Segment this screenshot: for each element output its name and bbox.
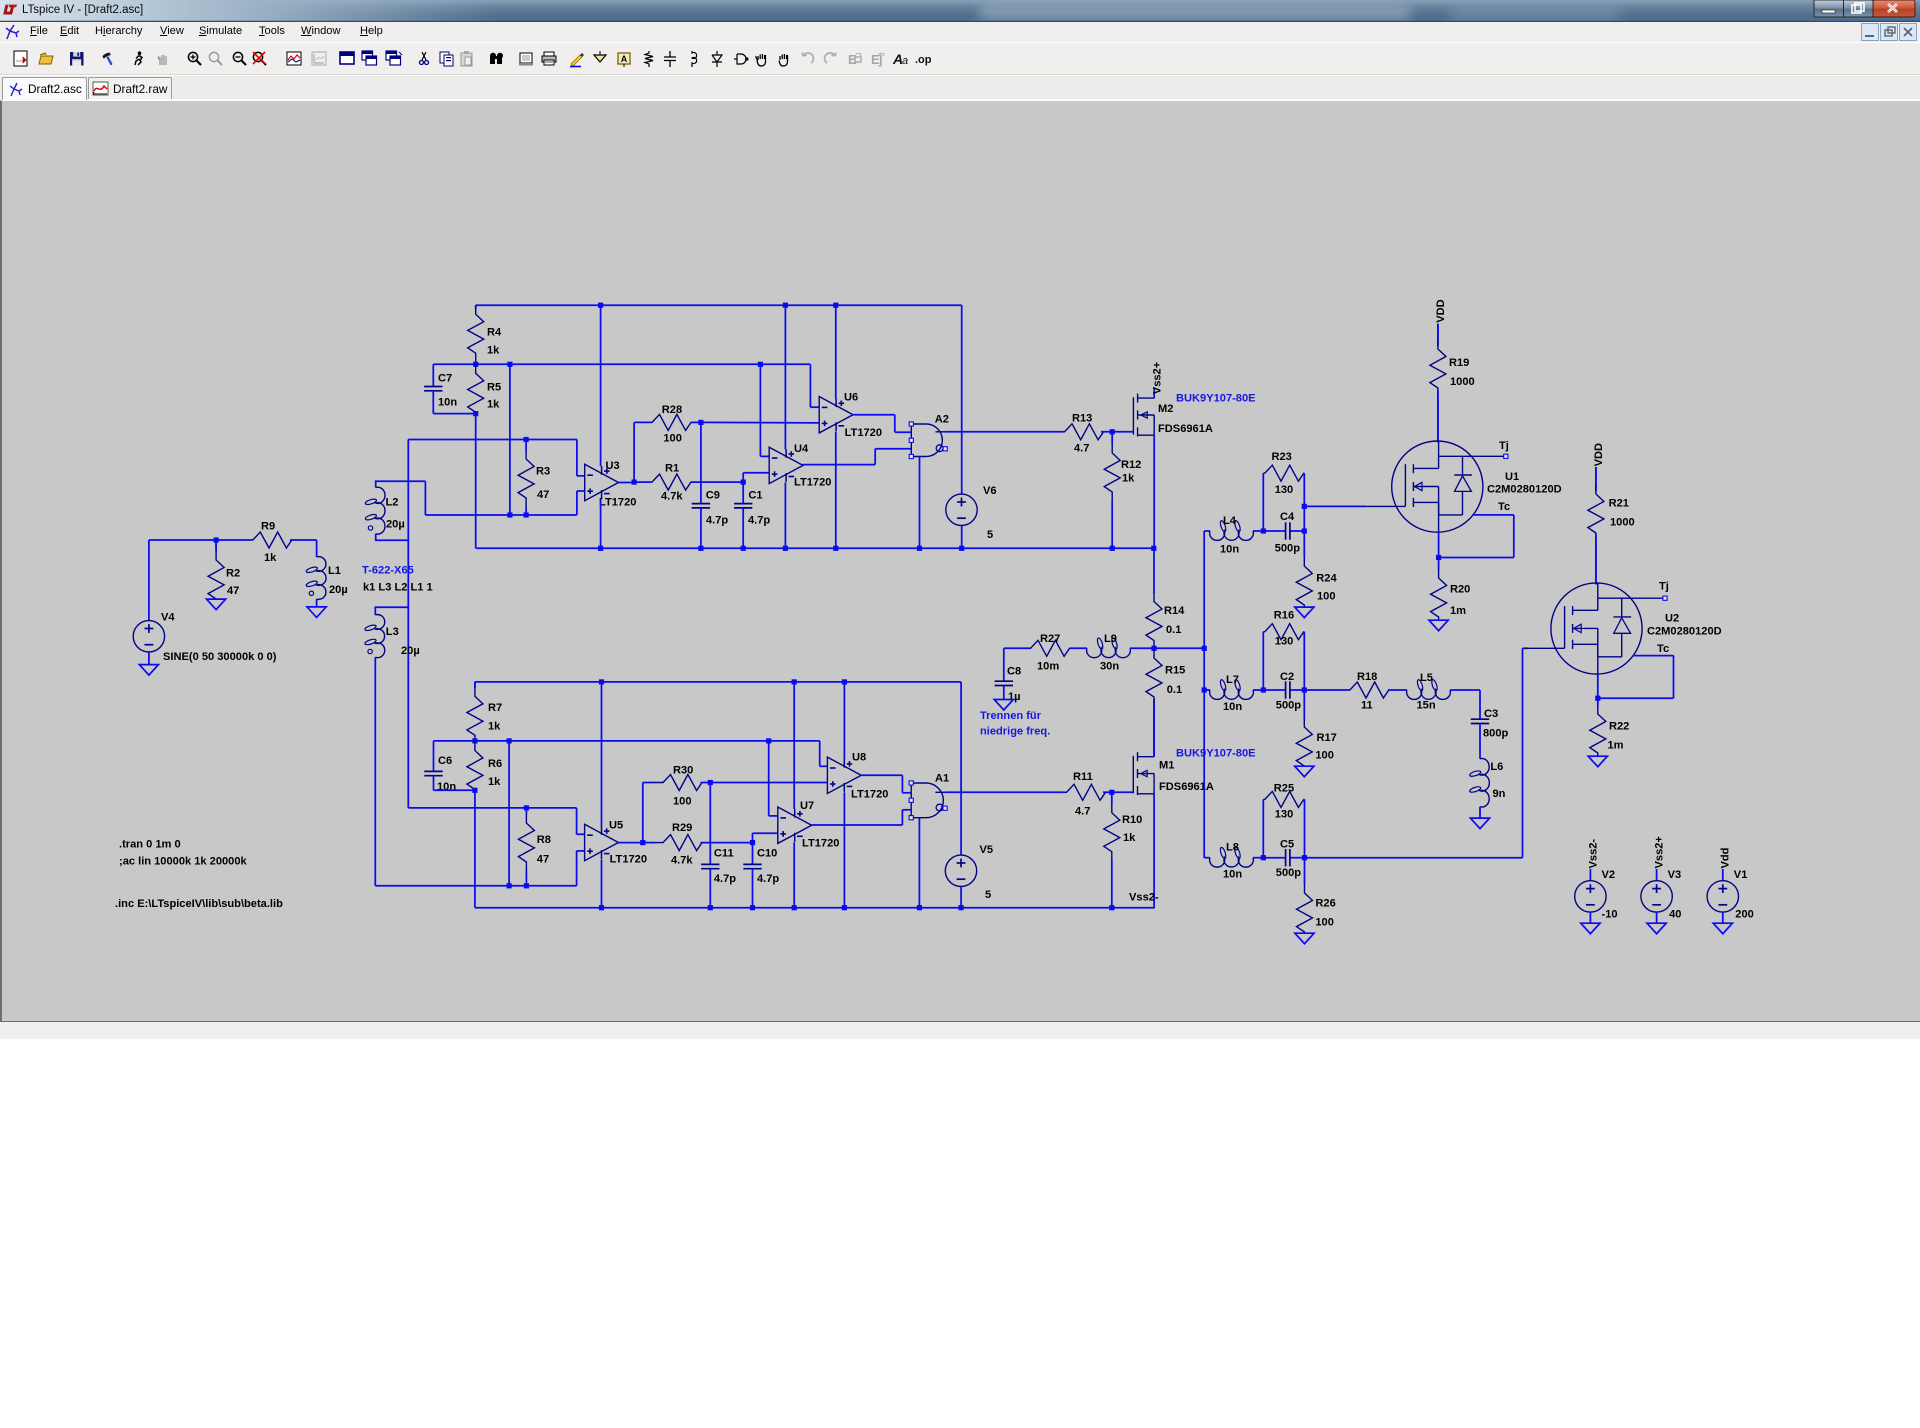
svg-text:130: 130 bbox=[1275, 809, 1294, 821]
svg-text:R22: R22 bbox=[1609, 721, 1629, 733]
svg-text:LT1720: LT1720 bbox=[794, 477, 831, 489]
junction bbox=[473, 411, 478, 416]
wire bbox=[643, 782, 652, 784]
svg-text:Tc: Tc bbox=[1498, 501, 1510, 513]
junction bbox=[473, 362, 478, 367]
svg-text:R28: R28 bbox=[662, 404, 682, 416]
ground R17 bbox=[1295, 766, 1314, 777]
wire bbox=[475, 362, 477, 364]
wire bbox=[752, 869, 754, 908]
svg-text:R1: R1 bbox=[665, 463, 679, 475]
wire bbox=[802, 464, 875, 466]
svg-text:U5: U5 bbox=[609, 820, 623, 832]
svg-text:V6: V6 bbox=[983, 485, 997, 497]
wire bbox=[1438, 533, 1440, 558]
wire bbox=[759, 364, 761, 456]
svg-text:1µ: 1µ bbox=[1008, 691, 1021, 703]
svg-text:BUK9Y107-80E: BUK9Y107-80E bbox=[1176, 747, 1256, 759]
junction bbox=[472, 738, 477, 743]
wire bbox=[474, 682, 476, 688]
wire bbox=[1479, 807, 1481, 818]
toolbar icon new schematic bbox=[14, 51, 27, 66]
wire bbox=[1474, 514, 1514, 516]
junction bbox=[598, 303, 603, 308]
junction bbox=[1151, 546, 1156, 551]
resistor R26 (100) bbox=[1297, 858, 1336, 934]
junction bbox=[632, 480, 637, 485]
wire bbox=[1070, 647, 1087, 649]
svg-text:M1: M1 bbox=[1159, 760, 1174, 772]
ground V4 bbox=[139, 665, 158, 676]
spice directive .tran bbox=[119, 839, 181, 851]
wire bbox=[290, 539, 317, 541]
junction bbox=[1261, 855, 1266, 860]
inductor L9 (30n) bbox=[1087, 633, 1131, 673]
comparator U3 LT1720 bbox=[585, 460, 637, 509]
toolbar icon label net bbox=[618, 53, 630, 67]
svg-text:R3: R3 bbox=[536, 465, 550, 477]
svg-text:1000: 1000 bbox=[1610, 517, 1635, 529]
toolbar icon copy bbox=[440, 52, 453, 66]
wire bbox=[1303, 632, 1305, 690]
wire bbox=[835, 432, 837, 549]
junction bbox=[524, 805, 529, 810]
wire bbox=[148, 652, 150, 665]
junction bbox=[507, 512, 512, 517]
svg-text:5: 5 bbox=[987, 529, 993, 541]
svg-text:R19: R19 bbox=[1449, 357, 1469, 369]
wire bbox=[701, 842, 753, 844]
toolbar icon find bbox=[490, 53, 503, 64]
wire bbox=[600, 500, 602, 549]
svg-text:30n: 30n bbox=[1100, 661, 1119, 673]
wire bbox=[475, 412, 477, 414]
junction bbox=[1202, 646, 1207, 651]
svg-text:15n: 15n bbox=[1417, 699, 1436, 711]
svg-text:Vss2+: Vss2+ bbox=[1653, 836, 1665, 869]
svg-text:VDD: VDD bbox=[1593, 443, 1605, 466]
svg-text:L9: L9 bbox=[1104, 633, 1117, 645]
canvas bottom border bbox=[0, 1021, 1920, 1022]
svg-text:500p: 500p bbox=[1276, 867, 1302, 879]
svg-text:U3: U3 bbox=[606, 460, 620, 472]
ground V2 bbox=[1581, 923, 1600, 934]
wire bbox=[743, 472, 769, 474]
toolbar icon open bbox=[39, 53, 53, 64]
junction bbox=[758, 362, 763, 367]
toolbar icon spice directive .op bbox=[915, 54, 932, 66]
toolbar icon print preview bbox=[519, 53, 533, 66]
wire bbox=[1004, 647, 1030, 649]
resistor R13 (4.7) bbox=[1063, 413, 1104, 455]
svg-text:V2: V2 bbox=[1602, 869, 1616, 881]
svg-text:VDD: VDD bbox=[1435, 299, 1447, 322]
junction bbox=[1109, 905, 1114, 910]
junction bbox=[1261, 687, 1266, 692]
svg-text:V1: V1 bbox=[1734, 869, 1748, 881]
wire bbox=[1263, 530, 1285, 532]
wire bbox=[475, 305, 477, 309]
wire bbox=[1597, 674, 1599, 698]
svg-text:Tc: Tc bbox=[1657, 643, 1669, 655]
wire bbox=[961, 526, 963, 549]
wire bbox=[1291, 530, 1305, 532]
svg-text:Vss2+: Vss2+ bbox=[1152, 361, 1164, 394]
wire bbox=[576, 440, 578, 476]
wire net R7-R6 mid bbox=[434, 740, 820, 742]
svg-text:130: 130 bbox=[1275, 484, 1294, 496]
wire bbox=[407, 440, 409, 808]
comparator U5 LT1720 bbox=[585, 820, 647, 866]
wire bbox=[215, 540, 217, 550]
svg-text:L5: L5 bbox=[1420, 672, 1433, 684]
AND gate A1 bbox=[909, 773, 949, 820]
wire bbox=[149, 539, 216, 541]
wire bbox=[1204, 857, 1210, 859]
svg-text:;ac lin 10000k 1k 20000k: ;ac lin 10000k 1k 20000k bbox=[119, 855, 248, 867]
svg-text:M2: M2 bbox=[1158, 403, 1173, 415]
toolbar icon inductor bbox=[692, 51, 697, 67]
svg-text:U4: U4 bbox=[794, 443, 809, 455]
toolbar icon print bbox=[542, 52, 556, 65]
svg-text:47: 47 bbox=[537, 489, 549, 501]
toolbar icon paste (disabled) bbox=[461, 51, 472, 66]
svg-text:R9: R9 bbox=[261, 521, 275, 533]
toolbar icon tile horizontal bbox=[340, 52, 354, 64]
svg-text:.tran 0 1m 0: .tran 0 1m 0 bbox=[119, 839, 181, 851]
svg-text:L7: L7 bbox=[1226, 674, 1239, 686]
ground R26 bbox=[1295, 933, 1314, 944]
wire bbox=[809, 364, 811, 407]
wire bbox=[742, 473, 744, 482]
svg-text:R29: R29 bbox=[672, 822, 692, 834]
wire bbox=[692, 421, 701, 423]
wire bbox=[861, 774, 902, 776]
junction bbox=[792, 679, 797, 684]
svg-text:4.7p: 4.7p bbox=[706, 515, 728, 527]
svg-text:R25: R25 bbox=[1274, 783, 1294, 795]
voltage source V2 (-10) Vss2- bbox=[1587, 839, 1599, 869]
wire bbox=[1253, 689, 1263, 691]
svg-text:4.7p: 4.7p bbox=[757, 873, 779, 885]
net label Vss2- bbox=[1129, 892, 1159, 904]
svg-text:R21: R21 bbox=[1609, 498, 1629, 510]
junction bbox=[792, 905, 797, 910]
inductor L2 (20µ) bbox=[365, 481, 426, 540]
wire bbox=[742, 508, 744, 548]
ground R22 bbox=[1588, 756, 1607, 767]
wire bbox=[474, 739, 476, 741]
tab bar bbox=[0, 76, 1920, 100]
wire net R4-R5 mid bbox=[433, 363, 810, 365]
wire bbox=[1204, 689, 1210, 691]
comparator U8 LT1720 bbox=[827, 752, 888, 801]
svg-text:C11: C11 bbox=[714, 848, 734, 860]
junction bbox=[783, 303, 788, 308]
wire bbox=[692, 481, 744, 483]
svg-text:4.7p: 4.7p bbox=[748, 515, 770, 527]
wire bbox=[784, 305, 786, 449]
svg-text:500p: 500p bbox=[1276, 699, 1302, 711]
wire bbox=[1153, 388, 1155, 398]
wire bbox=[1153, 794, 1155, 908]
resistor R22 (1m) bbox=[1590, 698, 1630, 756]
wire bbox=[509, 364, 511, 515]
junction bbox=[1109, 790, 1114, 795]
wire bbox=[633, 422, 635, 482]
svg-text:k1 L3 L2 L1 1: k1 L3 L2 L1 1 bbox=[363, 581, 433, 593]
junction bbox=[599, 679, 604, 684]
wire bbox=[433, 413, 475, 415]
wire bbox=[700, 422, 702, 503]
toolbar icon component bbox=[734, 54, 748, 64]
svg-text:R16: R16 bbox=[1274, 610, 1294, 622]
wire bbox=[576, 808, 578, 834]
wire bbox=[1154, 647, 1204, 649]
wire bbox=[1262, 799, 1264, 857]
wire bbox=[1291, 689, 1305, 691]
svg-text:niedrige freq.: niedrige freq. bbox=[980, 726, 1050, 738]
svg-text:C10: C10 bbox=[757, 848, 777, 860]
junction bbox=[524, 883, 529, 888]
wire bbox=[894, 415, 896, 433]
junction bbox=[507, 883, 512, 888]
toolbar icon save bbox=[70, 52, 84, 66]
svg-text:R30: R30 bbox=[673, 765, 693, 777]
svg-text:C2M0280120D: C2M0280120D bbox=[1487, 484, 1562, 496]
wire bbox=[843, 682, 845, 759]
wire bbox=[1388, 689, 1407, 691]
svg-text:-10: -10 bbox=[1602, 909, 1618, 921]
wire bbox=[918, 818, 920, 908]
status bar bbox=[0, 1022, 1920, 1039]
svg-text:1m: 1m bbox=[1608, 740, 1624, 752]
ground V3 bbox=[1647, 923, 1666, 934]
wire bbox=[793, 682, 795, 809]
junction bbox=[640, 840, 645, 845]
wire bbox=[576, 491, 578, 515]
svg-text:U6: U6 bbox=[844, 392, 858, 404]
toolbar bbox=[0, 43, 1920, 75]
wire bbox=[618, 842, 643, 844]
svg-text:100: 100 bbox=[1315, 750, 1334, 762]
wire bbox=[1130, 647, 1154, 649]
toolbar icon halt (disabled) bbox=[158, 55, 166, 65]
resistor R3 (47) bbox=[518, 440, 550, 516]
svg-text:C7: C7 bbox=[438, 372, 452, 384]
wire top rail bottom block bbox=[475, 681, 961, 683]
wire bbox=[1589, 912, 1591, 923]
wire bbox=[508, 741, 510, 886]
wire bbox=[945, 431, 1063, 433]
svg-text:C3: C3 bbox=[1484, 708, 1498, 720]
wire bbox=[1513, 515, 1515, 558]
svg-text:R17: R17 bbox=[1317, 732, 1337, 744]
caption buttons bbox=[1814, 0, 1915, 17]
wire bbox=[601, 860, 603, 908]
resistor R21 (1000) bbox=[1588, 467, 1635, 584]
toolbar icon control panel hammer bbox=[102, 52, 115, 67]
svg-text:R14: R14 bbox=[1164, 605, 1185, 617]
svg-text:R12: R12 bbox=[1121, 459, 1141, 471]
comparator U4 LT1720 bbox=[769, 443, 831, 489]
svg-text:4.7k: 4.7k bbox=[661, 491, 683, 503]
wire bbox=[434, 789, 475, 791]
svg-text:C5: C5 bbox=[1280, 839, 1294, 851]
wire bbox=[1262, 473, 1264, 531]
wire bbox=[1263, 689, 1285, 691]
svg-text:U7: U7 bbox=[800, 800, 814, 812]
wire bbox=[945, 791, 1065, 793]
svg-text:L4: L4 bbox=[1223, 515, 1237, 527]
svg-text:R2: R2 bbox=[226, 568, 240, 580]
resistor R20 (1m) bbox=[1431, 558, 1471, 621]
wire bbox=[709, 869, 711, 908]
svg-text:20µ: 20µ bbox=[329, 584, 348, 596]
svg-text:10n: 10n bbox=[1223, 869, 1242, 881]
svg-text:LT1720: LT1720 bbox=[851, 789, 888, 801]
svg-text:4.7: 4.7 bbox=[1075, 806, 1090, 818]
toolbar icon resistor bbox=[645, 51, 653, 67]
wire bbox=[577, 850, 585, 852]
wire bbox=[1304, 505, 1365, 507]
svg-text:C6: C6 bbox=[438, 755, 452, 767]
svg-text:T-622-X65: T-622-X65 bbox=[362, 565, 414, 577]
junction bbox=[708, 905, 713, 910]
inductor L3 (20µ) bbox=[364, 607, 419, 657]
toolbar icon cascade bbox=[386, 51, 402, 65]
wire bbox=[895, 431, 912, 433]
voltage source V3 (40) Vss2+ bbox=[1653, 836, 1665, 869]
spice directive k1 L3 L2 L1 1 bbox=[363, 581, 433, 593]
toolbar icon plot settings (disabled) bbox=[312, 52, 326, 65]
wire bbox=[752, 833, 754, 842]
wire bbox=[475, 414, 477, 549]
svg-text:R10: R10 bbox=[1122, 814, 1142, 826]
svg-text:1k: 1k bbox=[1123, 832, 1136, 844]
wire bbox=[1263, 857, 1285, 859]
wire bbox=[843, 792, 845, 907]
ground L1 bbox=[307, 607, 326, 618]
junction bbox=[959, 905, 964, 910]
svg-text:V4: V4 bbox=[161, 612, 175, 624]
resistor R4 bbox=[468, 305, 502, 364]
toolbar icon move bbox=[756, 54, 766, 66]
junction bbox=[524, 512, 529, 517]
svg-text:C2M0280120D: C2M0280120D bbox=[1647, 625, 1722, 637]
wire bbox=[742, 482, 744, 504]
svg-text:20µ: 20µ bbox=[401, 645, 420, 657]
wire bbox=[316, 540, 318, 557]
junction bbox=[598, 546, 603, 551]
junction bbox=[708, 780, 713, 785]
svg-text:.op: .op bbox=[915, 54, 932, 66]
svg-text:100: 100 bbox=[673, 796, 692, 808]
AND gate A2 bbox=[909, 414, 949, 459]
wire bbox=[1722, 869, 1724, 881]
svg-text:FDS6961A: FDS6961A bbox=[1159, 781, 1214, 793]
wire bbox=[810, 406, 819, 408]
wire bbox=[1673, 656, 1675, 699]
wire bbox=[760, 455, 769, 457]
wire bbox=[577, 833, 585, 835]
wire bbox=[634, 481, 651, 483]
svg-text:C2: C2 bbox=[1280, 671, 1294, 683]
svg-text:L8: L8 bbox=[1226, 842, 1239, 854]
junction bbox=[842, 679, 847, 684]
spice directive .inc bbox=[115, 898, 283, 910]
svg-text:R26: R26 bbox=[1315, 898, 1335, 910]
comment BUK9Y107-80E (top) bbox=[1176, 393, 1256, 405]
wire bbox=[812, 824, 903, 826]
LTspice logo bbox=[3, 5, 17, 15]
junction bbox=[766, 738, 771, 743]
wire bbox=[1439, 557, 1514, 559]
wire bbox=[408, 807, 576, 809]
wire bbox=[752, 843, 754, 865]
resistor R5 bbox=[468, 364, 501, 413]
wire bbox=[633, 481, 635, 483]
wire bbox=[709, 783, 711, 865]
spice directive ;ac lin bbox=[119, 855, 248, 867]
wire bbox=[902, 809, 911, 811]
svg-text:L3: L3 bbox=[386, 626, 399, 638]
svg-text:1k: 1k bbox=[1122, 473, 1135, 485]
svg-text:Vdd: Vdd bbox=[1720, 847, 1732, 868]
power flag VDD (R21) bbox=[1593, 443, 1605, 466]
wire bbox=[577, 490, 585, 492]
inductor L5 (15n) bbox=[1407, 672, 1451, 711]
toolbar icon capacitor bbox=[664, 51, 676, 67]
wire bbox=[961, 305, 963, 493]
junction bbox=[1595, 696, 1600, 701]
svg-text:R15: R15 bbox=[1165, 665, 1185, 677]
toolbar icon draw wire bbox=[570, 53, 584, 67]
svg-text:0.1: 0.1 bbox=[1167, 684, 1182, 696]
svg-text:4.7p: 4.7p bbox=[714, 873, 736, 885]
junction bbox=[833, 546, 838, 551]
resistor R10 (1k) bbox=[1104, 792, 1143, 907]
junction bbox=[917, 546, 922, 551]
wire bbox=[375, 885, 509, 887]
svg-text:0.1: 0.1 bbox=[1166, 624, 1181, 636]
junction bbox=[1302, 528, 1307, 533]
junction bbox=[524, 437, 529, 442]
junction bbox=[1110, 429, 1115, 434]
resistor R12 (1k) bbox=[1104, 432, 1141, 549]
junction bbox=[833, 303, 838, 308]
wire bbox=[432, 391, 434, 414]
wire bbox=[408, 439, 577, 441]
svg-text:R20: R20 bbox=[1450, 584, 1470, 596]
svg-text:47: 47 bbox=[227, 585, 239, 597]
comment T-622-X65 bbox=[362, 565, 414, 577]
power flag VDD (R19) bbox=[1435, 299, 1447, 322]
svg-text:4.7k: 4.7k bbox=[671, 854, 693, 866]
svg-text:R8: R8 bbox=[537, 834, 551, 846]
svg-text:200: 200 bbox=[1735, 909, 1754, 921]
wire bbox=[1103, 791, 1133, 793]
wire bbox=[784, 482, 786, 548]
power mosfet U1 C2M0280120D bbox=[1364, 440, 1561, 534]
wire bbox=[1656, 869, 1658, 881]
svg-text:V5: V5 bbox=[980, 844, 994, 856]
ground C8 bbox=[994, 700, 1013, 711]
junction bbox=[750, 905, 755, 910]
wire bbox=[634, 421, 651, 423]
junction bbox=[214, 537, 219, 542]
ground R20 bbox=[1429, 620, 1448, 631]
